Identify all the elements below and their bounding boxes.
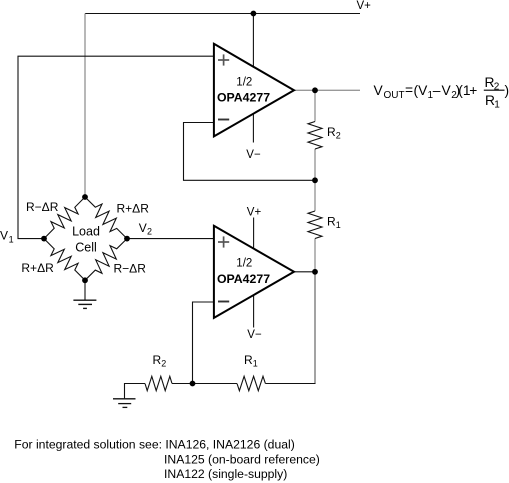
node: U1B output	[312, 269, 318, 275]
svg-text:V+: V+	[247, 207, 262, 219]
node: U1A V+ junction	[251, 11, 257, 17]
wire V+ pin of U1B	[253, 218, 255, 251]
wire bridge bottom node to ground	[84, 280, 86, 300]
minus sign U1B	[218, 301, 229, 303]
svg-text:For integrated solution see: I: For integrated solution see: INA126, INA…	[14, 438, 294, 452]
wire V- pin of U1B	[253, 294, 255, 328]
svg-text:1: 1	[494, 99, 500, 110]
svg-text:R: R	[153, 353, 162, 367]
svg-text:V: V	[139, 221, 147, 235]
svg-text:1: 1	[253, 359, 258, 369]
svg-text:1/2: 1/2	[236, 258, 252, 270]
resistor R1 (vertical, feedback)	[308, 211, 322, 239]
svg-text:OUT: OUT	[384, 90, 405, 101]
svg-text:1/2: 1/2	[236, 77, 252, 89]
wire U1A output to VOUT	[294, 89, 360, 91]
node: bridge right V2	[124, 236, 130, 242]
svg-text:–: –	[433, 83, 441, 98]
svg-text:R: R	[327, 215, 336, 229]
wire R1 to U1B output node	[314, 239, 316, 272]
svg-text:=: =	[405, 83, 413, 98]
svg-text:R−ΔR: R−ΔR	[26, 200, 59, 214]
svg-text:1: 1	[9, 234, 14, 244]
bridge resistor R+dR (top right)	[85, 197, 127, 239]
wire V- pin of U1A	[252, 110, 254, 143]
wire R2 to feedback node	[314, 149, 316, 180]
svg-text:1: 1	[336, 220, 341, 230]
wire feedback from node between R2 R1 to inverting input of U1A	[184, 123, 316, 181]
node: bridge top	[82, 194, 88, 200]
node: bridge left V1	[41, 236, 47, 242]
svg-text:Load: Load	[72, 225, 100, 239]
svg-text:): )	[505, 83, 509, 98]
wire supply to bridge top	[84, 14, 86, 198]
node: bottom R2/R1 junction	[190, 381, 196, 387]
op-amp U1B 1/2 OPA4277	[214, 226, 294, 318]
svg-text:2: 2	[147, 227, 152, 237]
svg-text:OPA4277: OPA4277	[217, 91, 270, 105]
svg-text:+: +	[469, 83, 477, 98]
note: integrated solutions text	[14, 438, 320, 481]
svg-text:INA122 (single-supply): INA122 (single-supply)	[164, 467, 287, 481]
wire U1B output down to bottom R1	[314, 272, 316, 384]
svg-text:R+ΔR: R+ΔR	[117, 202, 150, 216]
formula fraction bar	[484, 89, 505, 91]
wire feedback node to R1	[314, 180, 316, 211]
node: R2/R1 feedback junction	[312, 177, 318, 183]
wire bottom R1 to corner	[265, 383, 315, 385]
wire ground lead to bottom R2	[125, 384, 146, 399]
svg-text:R−ΔR: R−ΔR	[114, 262, 147, 276]
svg-text:2: 2	[161, 359, 166, 369]
wire U1B output	[294, 271, 315, 273]
resistor R2 (bottom, to ground)	[145, 376, 172, 390]
ground (bridge)	[73, 300, 96, 308]
resistor R2 (vertical, feedback)	[308, 122, 322, 150]
bridge resistor R-dR (top left)	[44, 197, 85, 239]
svg-text:Cell: Cell	[75, 241, 97, 255]
svg-text:2: 2	[494, 82, 500, 93]
wire junction to bottom R1	[193, 383, 238, 385]
svg-text:V−: V−	[247, 329, 262, 341]
svg-text:V: V	[0, 228, 8, 242]
svg-text:V: V	[442, 83, 452, 98]
svg-text:V−: V−	[246, 149, 261, 161]
wire V2 to noninverting input of U1B	[127, 238, 214, 240]
wire V+ top rail	[85, 13, 360, 15]
bridge resistor R-dR (bottom right)	[85, 239, 127, 281]
svg-text:OPA4277: OPA4277	[217, 272, 270, 286]
svg-text:V: V	[374, 83, 384, 98]
svg-text:(V: (V	[414, 83, 429, 98]
plus sign U1B	[218, 236, 229, 247]
node: U1A output	[312, 87, 318, 93]
ground (bottom R2)	[113, 399, 136, 408]
svg-text:R: R	[244, 353, 253, 367]
op-amp U1A 1/2 OPA4277	[214, 44, 294, 137]
wire output node to R2	[314, 90, 316, 121]
svg-text:R: R	[327, 125, 336, 139]
wire V1 to noninverting input of U1A	[18, 56, 214, 238]
svg-text:R+ΔR: R+ΔR	[21, 261, 54, 275]
node: bridge bottom	[82, 277, 88, 283]
resistor R1 (bottom)	[237, 376, 265, 390]
bridge resistor R+dR (bottom left)	[44, 239, 85, 281]
svg-text:INA125 (on-board reference): INA125 (on-board reference)	[164, 452, 320, 466]
wire inverting input of U1B to bottom node	[193, 302, 214, 384]
wire bottom R2 to junction	[172, 383, 193, 385]
svg-text:V+: V+	[357, 0, 372, 12]
minus sign U1A	[218, 119, 229, 121]
plus sign U1A	[218, 54, 229, 65]
svg-text:2: 2	[336, 131, 341, 141]
formula VOUT = (V1 - V2)(1 + R2/R1)	[374, 75, 509, 110]
wire V+ pin of U1A	[252, 14, 254, 69]
